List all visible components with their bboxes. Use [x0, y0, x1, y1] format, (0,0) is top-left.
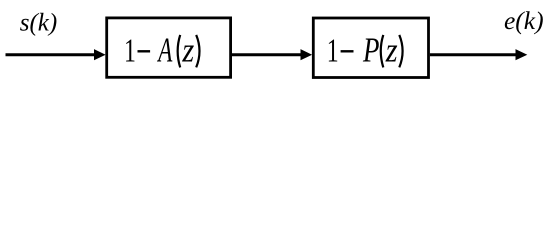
arrowhead of middle wire [301, 49, 313, 60]
svg-text:P: P [362, 30, 379, 69]
svg-text:1: 1 [124, 32, 136, 69]
wire: arrow from block U1 to block U2 [232, 53, 302, 56]
block U2: 1-P(z) [313, 18, 428, 78]
svg-text:A: A [157, 32, 173, 70]
svg-text:z: z [181, 32, 194, 70]
wire: output arrow from block U2 to e(k) [430, 53, 517, 56]
value label 1-A(z) inside block U1 [124, 32, 200, 70]
wire: input arrow from s(k) into first block [6, 53, 96, 56]
svg-text:z: z [385, 32, 398, 70]
value label 1-P(z) inside block U2 [327, 30, 403, 70]
block U1: 1-A(z) [107, 18, 231, 77]
svg-text:s(k): s(k) [20, 9, 57, 36]
arrowhead of input wire [94, 49, 106, 60]
svg-text:1: 1 [327, 32, 339, 69]
svg-text:e(k): e(k) [504, 6, 544, 35]
arrowhead of output wire [516, 49, 528, 60]
